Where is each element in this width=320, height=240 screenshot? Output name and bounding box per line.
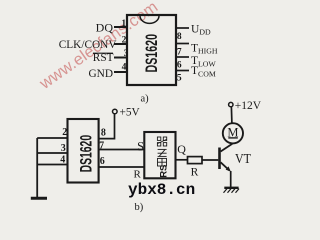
svg-text:VT: VT: [235, 152, 251, 167]
motor M circle: [223, 123, 243, 143]
svg-text:a): a): [141, 93, 150, 104]
wire pin2 to bus: [37, 137, 67, 139]
+12V supply terminal: [229, 102, 233, 106]
wire pin8 UDD: [176, 27, 189, 29]
svg-text:DS1620: DS1620: [77, 135, 95, 173]
svg-text:2: 2: [122, 35, 127, 45]
svg-text:DS1620: DS1620: [143, 34, 161, 73]
wire pin8 to +5V: [99, 114, 115, 139]
transistor VT base bar: [218, 148, 221, 170]
svg-text:ybx8.cn: ybx8.cn: [128, 181, 195, 199]
wire pin7 to S input: [99, 149, 145, 151]
wire pin2 CLK/CONV: [114, 43, 127, 45]
wire pin6 TLOW: [176, 56, 189, 58]
glyph 触: [158, 158, 167, 166]
wire motor to +12V: [230, 107, 233, 123]
svg-text:b): b): [135, 202, 144, 213]
ground: [31, 197, 47, 200]
wire pin4 to bus: [37, 164, 67, 166]
svg-text:2: 2: [62, 127, 67, 138]
svg-text:Q: Q: [177, 142, 186, 156]
svg-text:7: 7: [177, 48, 182, 58]
svg-text:4: 4: [122, 63, 127, 73]
resistor R: [188, 157, 203, 164]
wire emitter down: [230, 171, 232, 187]
wire Q output: [176, 159, 188, 161]
wire pin3 RST: [114, 57, 127, 59]
svg-text:R: R: [134, 168, 142, 180]
svg-text:S: S: [137, 140, 144, 154]
svg-text:+12V: +12V: [235, 100, 262, 112]
svg-text:1: 1: [121, 19, 126, 29]
svg-text:8: 8: [177, 32, 182, 42]
glyph 器: [157, 137, 166, 146]
glyph 发: [158, 149, 167, 156]
svg-text:4: 4: [60, 155, 65, 166]
wire pin5 TCOM: [176, 70, 189, 72]
svg-text:CLK/CONV: CLK/CONV: [59, 39, 118, 51]
svg-text:6: 6: [100, 156, 105, 167]
svg-text:DQ: DQ: [96, 20, 114, 34]
transistor emitter: [221, 162, 230, 170]
ground (hatched): [224, 187, 238, 189]
svg-text:6: 6: [177, 61, 182, 71]
wire pin7 THIGH: [176, 43, 189, 45]
svg-text:3: 3: [124, 49, 129, 59]
wire ground bus: [36, 138, 38, 198]
IC U2: DS1620 body: [68, 119, 99, 183]
svg-text:GND: GND: [89, 68, 113, 80]
svg-text:3: 3: [61, 143, 66, 154]
wire pin3 to bus: [37, 152, 67, 154]
+5V supply terminal: [113, 109, 118, 114]
wire pin4 GND: [114, 71, 127, 73]
svg-text:RS: RS: [158, 165, 169, 178]
RS trigger U3 box: [144, 132, 175, 178]
svg-text:+5V: +5V: [120, 107, 141, 119]
wire pin6 to R input: [99, 166, 145, 168]
svg-text:5: 5: [177, 74, 182, 84]
wire R to base: [202, 159, 218, 161]
transistor collector: [221, 144, 233, 152]
wire pin1 DQ: [114, 26, 127, 28]
svg-text:R: R: [191, 167, 199, 179]
svg-text:8: 8: [101, 128, 106, 139]
svg-text:7: 7: [99, 140, 104, 151]
IC U1 DS1620 body (DIP-8 outline with notch): [127, 15, 176, 85]
